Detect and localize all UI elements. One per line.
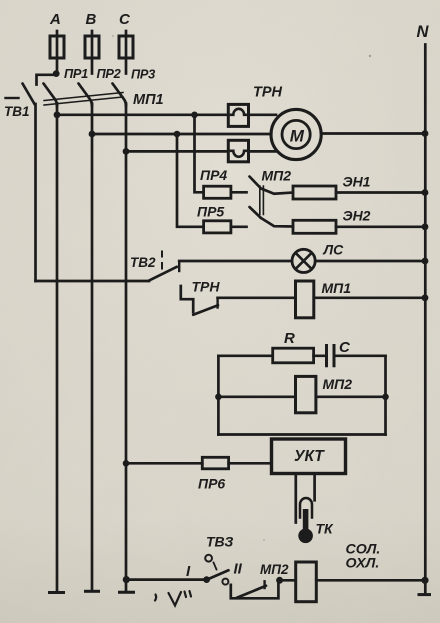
svg-text:ПР5: ПР5 [197, 204, 224, 220]
svg-text:ТВЗ: ТВЗ [206, 534, 233, 550]
svg-text:В: В [86, 11, 97, 28]
svg-text:ТРН: ТРН [192, 279, 221, 295]
svg-text:МП1: МП1 [322, 280, 352, 296]
svg-text:С: С [339, 339, 351, 356]
svg-text:МП2: МП2 [262, 168, 292, 184]
svg-text:ТК: ТК [316, 521, 335, 537]
svg-text:М: М [290, 127, 305, 146]
svg-text:ЛС: ЛС [323, 242, 345, 258]
svg-text:УКТ: УКТ [294, 448, 325, 465]
svg-text:ЭН1: ЭН1 [343, 174, 371, 190]
svg-text:МП2: МП2 [323, 376, 353, 392]
svg-text:ЭН2: ЭН2 [343, 208, 371, 224]
svg-text:ПР3: ПР3 [131, 67, 155, 82]
svg-text:ПР1: ПР1 [64, 66, 88, 81]
svg-text:ПР4: ПР4 [200, 167, 227, 183]
svg-text:R: R [284, 330, 295, 347]
svg-text:ОХЛ.: ОХЛ. [346, 556, 380, 572]
svg-text:А: А [49, 11, 61, 28]
svg-text:ТВ1: ТВ1 [4, 104, 30, 119]
svg-text:МП1: МП1 [133, 92, 164, 108]
svg-text:МП2: МП2 [260, 562, 289, 577]
svg-text:ПР6: ПР6 [198, 476, 225, 492]
svg-text:II: II [234, 561, 243, 578]
svg-text:N: N [417, 23, 430, 41]
svg-text:С: С [119, 11, 131, 28]
svg-text:ПР2: ПР2 [97, 66, 121, 81]
svg-text:ТРН: ТРН [253, 85, 283, 101]
svg-text:ТВ2: ТВ2 [130, 255, 156, 270]
